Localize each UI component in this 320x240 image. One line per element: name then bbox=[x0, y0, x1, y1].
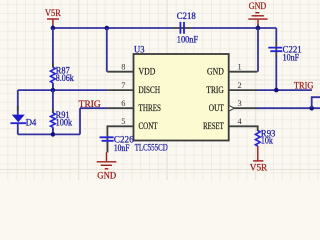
svg-text:8: 8 bbox=[121, 63, 125, 72]
wire: VDD drop to pin 8 bbox=[106, 28, 108, 72]
svg-text:THRES: THRES bbox=[139, 103, 162, 113]
bottom node wire (D4 cathode / R91 / riser) bbox=[18, 133, 80, 135]
svg-text:6: 6 bbox=[121, 99, 125, 108]
svg-text:DISCH: DISCH bbox=[139, 85, 161, 95]
power symbol V5R (top) bbox=[45, 8, 62, 28]
pin 1 GND bbox=[207, 63, 257, 77]
junction rail / VDD drop bbox=[105, 26, 110, 31]
capacitor C226 bbox=[100, 134, 134, 153]
junction node A / R87 / R91 bbox=[51, 88, 56, 93]
node A wire (DISCH net) bbox=[18, 89, 107, 91]
svg-text:TRIG: TRIG bbox=[206, 85, 224, 95]
pin 7 DISCH bbox=[107, 81, 160, 95]
svg-text:100k: 100k bbox=[56, 117, 73, 127]
svg-text:1: 1 bbox=[238, 63, 242, 72]
svg-text:D4: D4 bbox=[26, 117, 37, 127]
wire: rail from C218 to GND corner bbox=[192, 27, 277, 29]
svg-text:TLC555CD: TLC555CD bbox=[135, 142, 168, 152]
capacitor C221 bbox=[268, 43, 302, 63]
wire: top V5R rail bbox=[53, 27, 173, 29]
svg-text:U3: U3 bbox=[134, 44, 145, 54]
ground GND (top) bbox=[248, 1, 267, 28]
svg-text:100nF: 100nF bbox=[177, 35, 198, 45]
svg-text:TRIG: TRIG bbox=[294, 81, 314, 91]
wire: OUT net to right edge bbox=[257, 107, 320, 109]
pin 5 CONT bbox=[107, 117, 157, 152]
junction TRIG wire / C221 bbox=[274, 88, 279, 93]
diode D4 bbox=[10, 90, 36, 134]
svg-text:V5R: V5R bbox=[45, 8, 62, 18]
svg-text:5: 5 bbox=[121, 117, 125, 126]
pin 3 output arrow marker bbox=[229, 105, 234, 111]
pin 3 OUT bbox=[209, 99, 258, 113]
IC U3 TLC555CD body bbox=[134, 44, 229, 152]
svg-text:RESET: RESET bbox=[203, 121, 224, 131]
svg-text:8.06k: 8.06k bbox=[56, 73, 74, 83]
svg-text:2: 2 bbox=[238, 81, 242, 90]
junction top-left (V5R stem / rail / R87) bbox=[51, 26, 56, 31]
wire: THRES/TRIG wire to pin 6 bbox=[80, 107, 107, 109]
svg-text:GND: GND bbox=[207, 66, 224, 76]
pin 6 THRES bbox=[107, 99, 161, 113]
svg-text:OUT: OUT bbox=[209, 103, 224, 113]
svg-text:10nF: 10nF bbox=[283, 52, 300, 62]
svg-text:V5R: V5R bbox=[250, 162, 268, 172]
svg-text:GND: GND bbox=[97, 170, 116, 180]
resistor R87 bbox=[51, 28, 75, 90]
junction rail / GND stem / pin1 riser bbox=[256, 26, 261, 31]
junction bottom wire / R91 bbox=[51, 132, 56, 137]
svg-text:VDD: VDD bbox=[139, 66, 156, 76]
svg-text:7: 7 bbox=[121, 81, 125, 90]
wire: C221 down to TRIG wire bbox=[275, 57, 277, 91]
svg-text:10k: 10k bbox=[261, 136, 273, 146]
pin 4 RESET bbox=[203, 117, 258, 131]
power symbol V5R (bottom) bbox=[250, 146, 268, 172]
resistor R91 bbox=[51, 90, 73, 134]
pin 2 TRIG bbox=[206, 81, 257, 95]
pin 8 VDD bbox=[107, 63, 156, 77]
capacitor C218 bbox=[173, 11, 198, 45]
resistor R93 bbox=[255, 128, 275, 146]
wire: riser up to THRES wire bbox=[79, 108, 81, 134]
svg-text:3: 3 bbox=[238, 99, 242, 108]
wire: TRIG net to right bbox=[257, 89, 312, 91]
ground GND (bottom) bbox=[97, 152, 117, 180]
junction OUT wire / port bbox=[309, 106, 314, 111]
svg-text:10nF: 10nF bbox=[114, 143, 129, 153]
svg-text:GND: GND bbox=[249, 1, 267, 11]
svg-text:C218: C218 bbox=[177, 11, 196, 21]
svg-text:CONT: CONT bbox=[139, 121, 158, 131]
wire: rail corner down to C221 bbox=[275, 28, 277, 43]
port outline corner (OUT) bbox=[312, 97, 320, 108]
wire: pin1 riser to GND junction bbox=[257, 28, 259, 72]
svg-text:TRIG: TRIG bbox=[79, 99, 101, 109]
